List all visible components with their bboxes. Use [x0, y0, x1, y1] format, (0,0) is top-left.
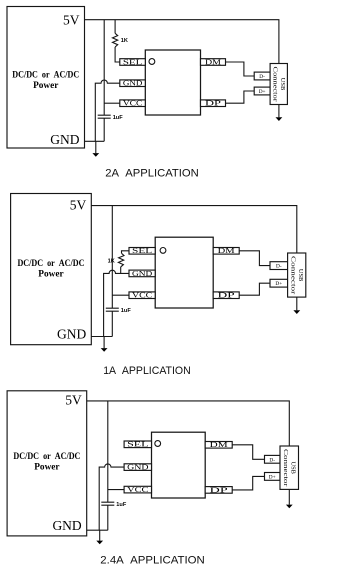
- svg-text:DM: DM: [218, 247, 236, 255]
- svg-text:GND: GND: [127, 464, 148, 472]
- svg-text:VCC: VCC: [123, 100, 143, 108]
- svg-text:SEL: SEL: [132, 247, 152, 255]
- svg-text:Connector: Connector: [290, 256, 297, 295]
- svg-text:1K: 1K: [108, 258, 115, 264]
- svg-text:DM: DM: [205, 58, 222, 66]
- svg-text:GND: GND: [123, 80, 143, 88]
- svg-text:USB: USB: [297, 269, 304, 281]
- svg-text:DP: DP: [210, 486, 228, 494]
- svg-text:DP: DP: [218, 292, 235, 300]
- svg-text:Connector: Connector: [272, 67, 279, 103]
- svg-text:DM: DM: [210, 441, 229, 449]
- svg-text:SEL: SEL: [123, 58, 143, 66]
- svg-text:2.4A APPLICATION: 2.4A APPLICATION: [100, 555, 205, 567]
- svg-text:DP: DP: [205, 100, 221, 108]
- svg-text:Power: Power: [34, 462, 59, 472]
- svg-text:VCC: VCC: [132, 292, 153, 300]
- svg-text:SEL: SEL: [127, 441, 148, 449]
- svg-text:GND: GND: [132, 270, 152, 278]
- svg-text:D-: D-: [269, 457, 275, 463]
- svg-text:1A APPLICATION: 1A APPLICATION: [103, 365, 191, 377]
- svg-text:5V: 5V: [63, 12, 80, 27]
- svg-text:D-: D-: [276, 264, 282, 270]
- svg-text:2A APPLICATION: 2A APPLICATION: [105, 168, 199, 180]
- svg-text:Power: Power: [33, 81, 58, 91]
- svg-text:D-: D-: [259, 74, 265, 80]
- svg-text:DC/DC or AC/DC: DC/DC or AC/DC: [17, 259, 84, 269]
- svg-text:5V: 5V: [65, 392, 82, 407]
- svg-text:USB: USB: [279, 78, 286, 90]
- svg-text:1uF: 1uF: [121, 308, 132, 314]
- svg-text:VCC: VCC: [127, 486, 149, 494]
- svg-text:D+: D+: [259, 89, 266, 95]
- svg-text:1uF: 1uF: [116, 502, 127, 508]
- svg-text:DC/DC or AC/DC: DC/DC or AC/DC: [13, 452, 80, 462]
- svg-text:1uF: 1uF: [113, 115, 124, 121]
- svg-text:GND: GND: [50, 132, 79, 147]
- svg-text:D+: D+: [275, 281, 282, 287]
- svg-text:Connector: Connector: [282, 449, 289, 488]
- svg-text:Power: Power: [38, 270, 63, 280]
- svg-text:5V: 5V: [70, 197, 87, 212]
- svg-text:USB: USB: [289, 461, 296, 473]
- svg-text:DC/DC or AC/DC: DC/DC or AC/DC: [12, 71, 79, 81]
- svg-text:1K: 1K: [121, 38, 128, 44]
- svg-text:GND: GND: [57, 327, 86, 342]
- svg-text:D+: D+: [269, 474, 276, 480]
- svg-text:GND: GND: [52, 518, 81, 533]
